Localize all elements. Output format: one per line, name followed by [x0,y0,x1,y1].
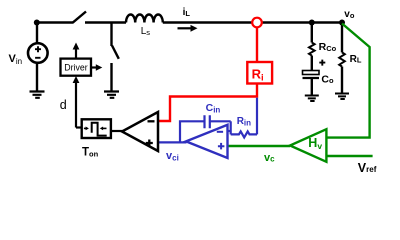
op-amp U2 integrator [186,125,228,158]
wire vc (Hv output to integrator plus input) [228,145,291,147]
junction dot node B (RCo branch) [309,20,315,26]
ground under Co [305,96,319,102]
svg-text:Driver: Driver [64,62,88,72]
svg-text:Ls: Ls [141,26,151,37]
ground under RL [335,94,349,100]
wire vo node down to RCo [311,23,313,43]
svg-text:vo: vo [344,9,355,20]
svg-text:RCo: RCo [319,41,337,53]
wire comparator output to Ton [111,130,123,132]
wire sense to Ri [256,27,258,62]
wire top rail left (node A to switch S1) [37,21,74,23]
svg-text:vci: vci [166,150,179,163]
svg-text:Cin: Cin [206,102,221,114]
capacitor Cin feedback wire left [180,121,204,142]
wire Ri to comparator minus input [158,84,257,122]
wire branch to switch S2 [110,23,112,47]
ground under S2 [104,92,119,98]
wire Rin node to red junction (blue vertical) [256,98,258,135]
wire vo to Hv input (green feedback) [326,24,369,138]
wire Co to ground [311,78,313,95]
capacitor Cin [205,115,210,128]
wire S2 bottom lead [110,63,112,91]
svg-text:RL: RL [350,54,362,65]
wire inductor to node vo [163,21,342,23]
junction dot node vo [339,20,345,26]
svg-text:Ton: Ton [82,147,99,159]
svg-text:Vin: Vin [9,53,23,66]
capacitor Cin feedback wire right [210,120,231,122]
comparator U3 [122,112,158,151]
wire switch S1 to inductor [85,21,126,23]
node A junction dot [34,20,40,26]
svg-text:vc: vc [264,152,275,164]
resistor Rin [231,131,257,137]
svg-text:Co: Co [321,73,334,85]
resistor RCo [309,43,315,56]
wire Vin source top lead [36,23,38,44]
driver block U1 [61,59,92,76]
resistor Ri [247,62,272,84]
resistor RL [339,52,345,66]
svg-text:Rin: Rin [237,116,251,128]
inductor Ls [126,14,163,22]
one-shot block Ton [82,119,111,138]
wire RCo to Co [311,56,313,71]
switch S1 blade [73,12,87,23]
wire driver arrow right to S2 [91,66,98,68]
wire Rin to integrator minus input [230,121,232,134]
svg-text:Vref: Vref [358,161,377,175]
amplifier Hv [290,129,326,162]
wire RL to ground [341,67,343,94]
wire driver arrow up to S1 [75,47,77,59]
wire vo down to RL [341,23,343,53]
wire vci (integrator output to comparator plus) [158,141,187,143]
svg-text:iL: iL [183,7,191,18]
wire Vref input [326,155,372,157]
ground under Vin [30,92,45,98]
switch S2 blade [112,46,119,59]
capacitor Co [303,71,320,75]
node sense point (red circle) [252,18,262,28]
wire Vin source bottom lead [36,63,38,91]
wire d from Ton to driver (arrow up) [75,82,77,128]
arrow iL current direction [178,27,194,29]
svg-text:d: d [60,98,67,112]
voltage source Vin [28,43,48,63]
